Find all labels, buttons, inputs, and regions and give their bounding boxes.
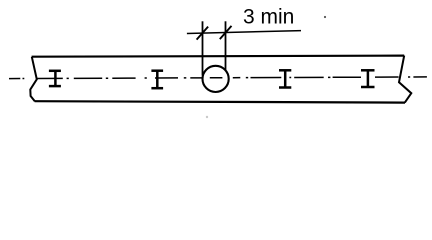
tie symbol 3 bbox=[279, 70, 291, 89]
extension line left bbox=[202, 21, 204, 75]
dimension tick left bbox=[197, 27, 209, 40]
tie symbol 2 bbox=[151, 70, 163, 89]
right break line bbox=[399, 56, 411, 103]
svg-text:3 min: 3 min bbox=[243, 6, 294, 29]
dimension tick right bbox=[220, 26, 232, 39]
strip top edge bbox=[32, 56, 405, 57]
strip bottom edge bbox=[35, 101, 405, 102]
hole (circle) bbox=[203, 66, 229, 92]
dimension line bbox=[187, 31, 301, 34]
faint smudge bbox=[206, 116, 208, 118]
tie symbol 1 bbox=[49, 70, 61, 87]
scan speck bbox=[324, 16, 326, 18]
extension line right bbox=[225, 21, 227, 70]
tie symbol 4 bbox=[361, 69, 375, 88]
center line (dash-dot axis) bbox=[9, 77, 427, 79]
left break line bbox=[30, 57, 37, 101]
